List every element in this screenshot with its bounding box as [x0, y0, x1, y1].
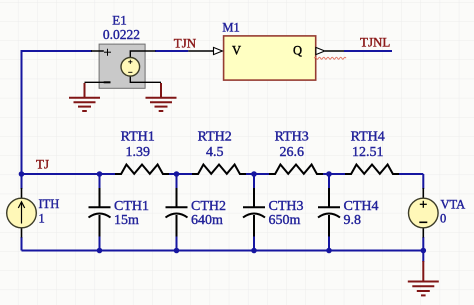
junction dot CTH1 top — [97, 171, 103, 177]
wire TJ net: top rail segment 3 — [245, 173, 270, 175]
svg-text:RTH4: RTH4 — [351, 130, 385, 145]
wire CTH2 stubs — [176, 174, 178, 189]
ground at E1 source output — [146, 83, 177, 111]
capacitor CTH2 — [166, 188, 188, 237]
svg-text:26.6: 26.6 — [279, 145, 304, 160]
wire CTH3 stubs — [253, 174, 255, 189]
svg-text:4.5: 4.5 — [206, 145, 224, 160]
svg-text:12.51: 12.51 — [352, 145, 384, 160]
ground at VTA — [408, 261, 439, 295]
resistor RTH4 — [345, 165, 399, 175]
ground at E1 minus pin — [69, 83, 100, 111]
junction dot CTH4 bottom — [326, 248, 332, 254]
svg-text:1: 1 — [39, 212, 45, 226]
wire TJ net: top rail segment 1 — [22, 173, 118, 175]
junction dot CTH3 top — [251, 171, 257, 177]
svg-text:Q: Q — [293, 44, 302, 58]
svg-text:15m: 15m — [114, 213, 139, 228]
svg-text:640m: 640m — [191, 213, 223, 228]
wire TJN net — [155, 50, 188, 52]
wire VTA vertical stubs — [422, 174, 424, 189]
junction dot CTH1 bottom — [97, 248, 103, 254]
svg-text:TJN: TJN — [174, 35, 197, 50]
capacitor CTH4 — [318, 188, 340, 237]
svg-text:ITH: ITH — [39, 197, 60, 211]
svg-text:0: 0 — [440, 211, 446, 225]
svg-text:TJNL: TJNL — [360, 35, 390, 50]
wire ITH bottom stub — [21, 237, 23, 251]
junction dot TJ/ITH — [19, 171, 25, 177]
wire CTH1 stubs — [99, 174, 101, 189]
wire CTH4 stubs — [328, 174, 330, 189]
resistor RTH1 — [115, 165, 169, 175]
svg-text:0.0222: 0.0222 — [103, 27, 140, 42]
wire TJ net: left vertical from E1 input down to rail — [22, 51, 93, 174]
svg-text:1.39: 1.39 — [125, 145, 150, 160]
svg-text:TJ: TJ — [36, 157, 49, 172]
svg-text:M1: M1 — [222, 21, 239, 35]
compile-error squiggle under Q pin — [314, 57, 346, 59]
svg-text:RTH2: RTH2 — [198, 130, 232, 145]
svg-text:RTH1: RTH1 — [121, 130, 155, 145]
wire TJ net: top rail segment 4 — [322, 173, 345, 175]
wire VTA ground stub — [422, 251, 424, 263]
junction dot CTH2 top — [174, 171, 180, 177]
block M1 — [188, 36, 344, 80]
svg-text:VTA: VTA — [441, 197, 466, 211]
resistor RTH3 — [269, 165, 323, 175]
junction dot CTH3 bottom — [251, 248, 257, 254]
wire TJ net: top rail segment 5 — [398, 173, 423, 175]
current source ITH — [7, 188, 37, 238]
wire TJ net: top rail segment 2 — [168, 173, 193, 175]
junction dot CTH4 top — [326, 171, 332, 177]
wire ITH top stub — [21, 174, 23, 189]
wire bottom rail (ground net) — [22, 250, 424, 252]
junction dot VTA/ground — [421, 248, 427, 254]
voltage source VTA — [409, 188, 439, 238]
svg-text:9.8: 9.8 — [344, 213, 362, 228]
capacitor CTH3 — [243, 188, 265, 237]
capacitor CTH1 — [89, 188, 111, 237]
svg-text:E1: E1 — [112, 13, 126, 28]
wire TJNL net — [344, 50, 392, 52]
svg-text:650m: 650m — [269, 213, 301, 228]
svg-text:V: V — [232, 44, 241, 58]
svg-text:RTH3: RTH3 — [275, 130, 309, 145]
resistor RTH2 — [192, 165, 246, 175]
op-amp/source E1 (VCVS) — [85, 44, 162, 88]
junction dot CTH2 bottom — [174, 248, 180, 254]
